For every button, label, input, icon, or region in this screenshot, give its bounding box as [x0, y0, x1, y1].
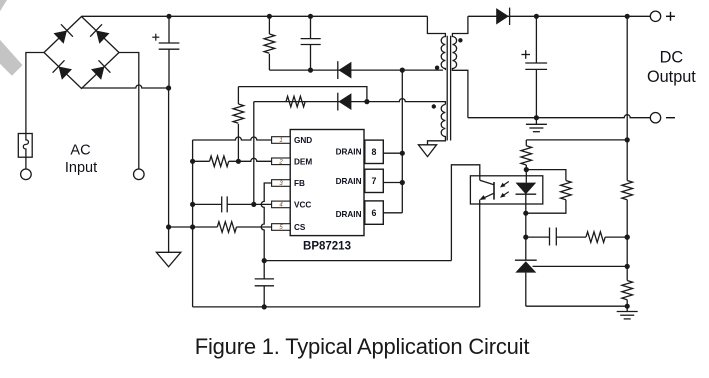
secondary phase dot [458, 38, 462, 42]
wire AC line left from bridge [26, 53, 44, 134]
bridge diode top-right [90, 24, 110, 44]
node secondary ground [625, 304, 630, 309]
node pin7 to drain bus [400, 180, 405, 185]
node output cap bottom [534, 115, 539, 120]
node DEM row at bus [190, 159, 195, 164]
AC terminal right [134, 169, 145, 180]
wire primary ground line down [168, 88, 170, 252]
wire RC branch [526, 236, 627, 238]
watermark gray band top-left [0, 40, 23, 76]
wire emitter down [479, 200, 481, 307]
primary phase dot [435, 66, 439, 70]
wire FB to opto collector [264, 260, 451, 262]
AC terminal left [21, 169, 32, 180]
transformer T1 core [447, 36, 450, 141]
node output plus branch [625, 14, 630, 19]
pin 2 box [272, 158, 291, 165]
earth ground secondary lower [617, 312, 638, 319]
output diode D3 [496, 8, 509, 25]
pin 3 box [272, 180, 291, 187]
node DEM resistor right [236, 159, 241, 164]
wire DEM row [193, 158, 272, 161]
ground symbol primary (open triangle) [156, 252, 180, 266]
wire pin7 to drain bus [383, 182, 402, 184]
opto light arrows [500, 182, 509, 198]
svg-text:AC: AC [70, 143, 90, 159]
svg-text:DRAIN: DRAIN [336, 210, 362, 219]
wire VCC row [193, 203, 272, 205]
bulk capacitor C1 (polarized) [159, 16, 180, 88]
svg-text:Output: Output [647, 68, 696, 86]
aux phase dot [432, 104, 436, 108]
wire LED cathode down [525, 213, 527, 260]
compensation capacitor C5 [550, 228, 557, 246]
output capacitor C4 (polarized) [525, 16, 547, 117]
svg-text:Figure 1. Typical Application: Figure 1. Typical Application Circuit [195, 334, 530, 359]
earth ground secondary (under cap) [526, 118, 547, 132]
DEM divider resistor R2 [237, 87, 239, 162]
wire GND row (hops over two verticals) [193, 137, 272, 140]
svg-text:6: 6 [372, 208, 377, 218]
DC output terminal plus [650, 11, 660, 21]
wire top rail primary [82, 15, 428, 17]
svg-text:DRAIN: DRAIN [336, 177, 362, 186]
opto phototransistor [479, 180, 494, 200]
node CS row to ground line [166, 224, 171, 229]
bridge diode top-left [53, 24, 73, 44]
IC U1 BP87213 body [290, 130, 364, 236]
node FB cap bottom [262, 304, 267, 309]
pin 1 box [272, 137, 291, 144]
wire LED anode to parallel resistor [526, 170, 566, 181]
node divider mid upper [625, 235, 630, 240]
ground arrow aux (open triangle) [418, 145, 436, 157]
plus sign of C4 [521, 50, 530, 59]
node RC branch left [523, 235, 528, 240]
label minus [666, 117, 675, 119]
optocoupler U2 box [470, 176, 542, 204]
wire CS row [169, 226, 272, 228]
svg-text:BP87213: BP87213 [303, 241, 351, 253]
node VCC row at bus [190, 202, 195, 207]
node FB junction [262, 258, 267, 263]
svg-text:8: 8 [372, 147, 377, 157]
wire aux row [254, 99, 446, 105]
pin 5 box [272, 224, 291, 231]
transformer primary winding [427, 16, 445, 70]
VCC diode D2 [338, 93, 352, 111]
wire pin6 to drain bus [383, 212, 402, 214]
node bulk cap top [166, 14, 171, 19]
node pin8 to drain bus [400, 151, 405, 156]
divider resistor lower R10 [622, 281, 633, 300]
pin 4 box [272, 201, 291, 208]
node clamp row to drain bus [400, 68, 405, 73]
svg-text:GND: GND [294, 136, 312, 145]
VCC capacitor C3 [222, 196, 228, 212]
CS resistor R5 [217, 222, 236, 233]
wire secondary ground row [526, 305, 627, 307]
wire output bottom rail (hop over sense line) [468, 115, 650, 118]
DC output terminal minus [650, 113, 660, 123]
opto LED [516, 170, 537, 214]
svg-text:VCC: VCC [294, 200, 311, 209]
zener diode Z1 [515, 260, 537, 306]
wire drain bus vertical [401, 70, 403, 213]
node CS row at bus [190, 224, 195, 229]
wire AC line right from bridge [119, 53, 139, 170]
svg-text:7: 7 [372, 176, 377, 186]
wire bridge negative to ground line (hop over AC line) [82, 85, 169, 88]
wire secondary top rail [468, 15, 650, 17]
fuse F1 [18, 134, 32, 158]
node VCC line joins row [251, 202, 256, 207]
transformer secondary winding [452, 16, 468, 117]
wire primary bottom rail [193, 306, 480, 308]
svg-text:DEM: DEM [294, 157, 312, 166]
svg-text:2: 2 [278, 160, 283, 166]
wire collector to FB routing [451, 165, 479, 261]
node LED cathode [523, 211, 528, 216]
wire zener tap to divider [533, 265, 628, 267]
svg-text:CS: CS [294, 223, 306, 232]
wire ground bus [192, 140, 194, 307]
pin 7 box [365, 169, 384, 192]
node RC branch right [625, 235, 630, 240]
node sense to bias row [625, 137, 630, 142]
label plus [666, 12, 675, 21]
svg-text:DRAIN: DRAIN [336, 147, 362, 156]
wire pin8 to drain bus [383, 152, 402, 154]
wire output sense vertical [626, 16, 628, 180]
plus sign of C1 [152, 34, 159, 41]
node snubber cap bottom [308, 68, 313, 73]
bias resistor R6 [525, 140, 527, 170]
svg-text:1: 1 [279, 138, 282, 144]
node bridge negative junction [166, 85, 171, 90]
wire divider bottom [626, 300, 628, 312]
wire parallel resistor to LED cathode [526, 200, 566, 214]
transformer aux winding [428, 105, 446, 145]
watermark corner sliver [0, 0, 7, 11]
pin 6 box [365, 201, 384, 224]
node snubber resistor top [267, 14, 272, 19]
divider resistor upper R9 [622, 181, 633, 200]
svg-text:DC: DC [660, 48, 684, 66]
FB filter capacitor C6 [255, 261, 274, 307]
node aux junction [364, 99, 369, 104]
wire fuse to terminal [25, 157, 27, 169]
clamp diode D1 [338, 61, 352, 79]
wire bias row [526, 139, 627, 141]
snubber resistor R1 [268, 16, 270, 70]
wire clamp row [269, 69, 443, 71]
pin 8 box [365, 140, 384, 163]
svg-text:Input: Input [65, 160, 97, 176]
node divider mid lower [625, 264, 630, 269]
node output cap top [534, 14, 539, 19]
wire DEM sense line [238, 87, 367, 102]
svg-text:FB: FB [294, 179, 305, 188]
compensation resistor R8 [586, 232, 605, 243]
node LED anode [524, 167, 529, 172]
snubber capacitor C2 [301, 16, 321, 70]
DEM resistor R4 [210, 156, 229, 167]
wire divider middle [626, 200, 628, 281]
VCC series resistor R3 [286, 96, 305, 107]
wire VCC vertical line [253, 102, 255, 205]
bridge diode bottom-left [53, 60, 73, 80]
LED parallel resistor R7 [561, 181, 572, 200]
wire FB line [261, 183, 271, 261]
bridge diode bottom-right [90, 60, 110, 80]
bridge rectifier BD1 diamond [44, 17, 119, 89]
node snubber cap top [308, 14, 313, 19]
